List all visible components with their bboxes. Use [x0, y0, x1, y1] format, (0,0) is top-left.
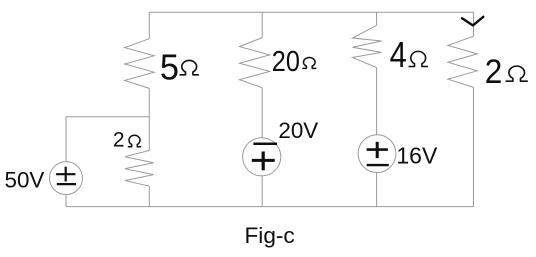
label: ohm symbol for R2 [128, 135, 141, 147]
wire: branch-2 lower segment (20V source to bottom rail) [261, 176, 263, 207]
wire: branch-3 segment (4-ohm to 16V source) [376, 68, 378, 135]
V2 minus-plus symbol [252, 144, 277, 171]
svg-text:2: 2 [113, 129, 125, 152]
svg-text:5: 5 [160, 47, 179, 88]
svg-text:16V: 16V [396, 142, 438, 168]
current direction arrowhead (chevron) on right branch [462, 17, 483, 26]
resistor R3 20-ohm zigzag [240, 38, 270, 88]
svg-text:Fig-c: Fig-c [245, 223, 295, 248]
wire: branch-2 segment (20-ohm to 20V source) [261, 88, 263, 138]
wire: left branch middle segment (5-ohm to 2-ohm, through node at middle rail) [148, 88, 150, 150]
svg-text:4: 4 [390, 36, 407, 76]
voltage source V3 16V circle [358, 135, 396, 173]
wire: branch-3 lower segment (16V source to bottom rail) [376, 173, 378, 207]
label: ohm symbol for R4 [409, 51, 428, 66]
svg-text:20: 20 [272, 46, 300, 78]
wire: branch-2 upper segment (top rail to 20-ohm) [261, 12, 263, 37]
wire: middle rail from 50V branch to node on left branch [66, 116, 149, 118]
voltage source V1 50V circle [50, 162, 83, 195]
voltage source V2 20V circle [243, 138, 281, 176]
V1 plus-minus symbol [56, 167, 76, 184]
wire: top rail [149, 11, 473, 13]
svg-text:20V: 20V [278, 118, 318, 143]
resistor R2 2-ohm (left) zigzag [125, 150, 154, 186]
wire: 50V branch above source [65, 117, 67, 162]
svg-text:2: 2 [485, 52, 503, 91]
resistor R4 4-ohm zigzag [353, 25, 382, 67]
resistor R1 5-ohm zigzag [125, 39, 155, 89]
wire: right branch upper segment (top-right corner to 2-ohm) [473, 12, 475, 36]
resistor R5 2-ohm (right) zigzag [448, 36, 477, 87]
wire: left branch lower segment (2-ohm to bottom rail) [148, 186, 150, 206]
label: ohm symbol for R3 [302, 58, 316, 69]
label: ohm symbol for R5 [506, 66, 528, 81]
wire: bottom rail [66, 206, 474, 208]
wire: right branch lower segment (2-ohm to bottom rail) [473, 87, 475, 206]
wire: 50V branch below source [65, 195, 67, 207]
svg-text:50V: 50V [5, 167, 45, 192]
label: ohm symbol for R1 [180, 60, 199, 74]
V3 plus-minus symbol [367, 142, 389, 165]
wire: branch-3 upper segment (top rail to 4-ohm) [376, 12, 378, 25]
wire: left branch upper segment (top rail to 5-ohm) [148, 12, 150, 39]
